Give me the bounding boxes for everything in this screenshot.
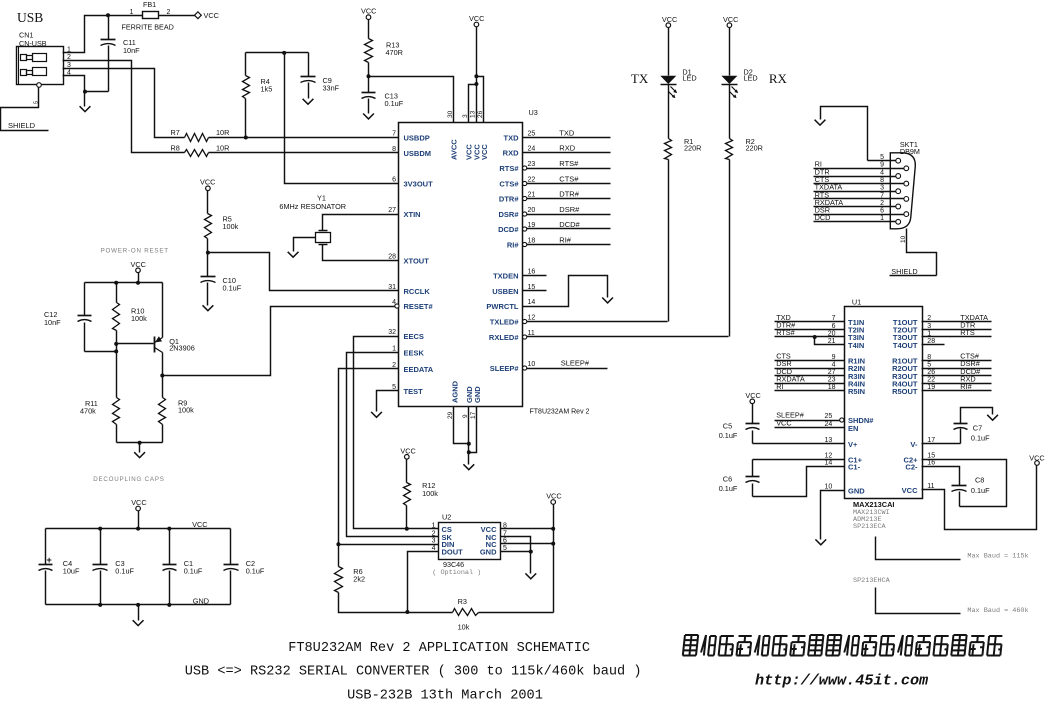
C1+ wire and C6 [753,459,845,461]
svg-text:+: + [47,555,52,565]
svg-text:EECS: EECS [404,332,424,341]
svg-text:LED: LED [744,74,758,83]
svg-text:1: 1 [130,9,134,16]
svg-text:GND: GND [848,487,865,496]
svg-text:V-: V- [910,440,918,449]
svg-text:93C46: 93C46 [443,560,464,569]
wire Q1 collector down [162,353,164,398]
svg-text:3: 3 [880,185,884,192]
svg-text:CTS#: CTS# [499,180,519,189]
svg-text:1: 1 [392,346,396,353]
svg-text:C2-: C2- [905,463,918,472]
svg-text:10nF: 10nF [44,318,61,327]
svg-text:3V3OUT: 3V3OUT [404,180,434,189]
svg-text:U3: U3 [529,108,538,117]
TXDEN USBEN stubs [523,275,547,277]
C1- wire loop [753,467,845,497]
svg-text:10uF: 10uF [63,567,80,576]
U1 right output wires [922,321,992,323]
junction R13/C13 [367,74,371,78]
svg-text:1: 1 [880,215,884,222]
svg-text:6: 6 [392,177,396,184]
svg-text:9: 9 [832,354,836,361]
svg-text:DCD#: DCD# [559,220,580,229]
svg-text:22: 22 [528,177,536,184]
junction C11/top-rail [106,13,110,17]
U2 chip body [439,523,501,560]
wire top rail to FB1 [142,15,144,17]
svg-text:1: 1 [432,522,436,529]
svg-text:33nF: 33nF [323,84,340,93]
decoupling ground arrow [138,605,140,621]
wire to pin 3 [469,85,477,123]
wire D1 to resistor [668,85,670,139]
svg-text:XTOUT: XTOUT [404,257,430,266]
svg-text:T4OUT: T4OUT [893,341,918,350]
capacitor C5 0.1uF [752,404,754,424]
svg-text:3: 3 [927,323,931,330]
resistor R7 10R [184,137,186,139]
svg-text:18: 18 [828,384,836,391]
svg-text:R5OUT: R5OUT [892,387,918,396]
svg-text:4: 4 [832,361,836,368]
svg-text:17: 17 [927,437,935,444]
T4IN jog from RTS# line [813,335,817,339]
svg-text:6: 6 [880,208,884,215]
max baud 460k bracket [876,588,961,614]
svg-text:9: 9 [880,162,884,169]
svg-text:27: 27 [828,369,836,376]
svg-text:C6: C6 [723,475,732,484]
svg-text:MAX213CAI: MAX213CAI [853,500,894,509]
RXLED# wire [527,336,729,338]
C2+ wire loop [922,460,1007,507]
svg-text:DTR#: DTR# [499,195,519,204]
capacitor C12 10nF [84,283,86,316]
wire to RCCLK pin 31 [208,253,399,291]
U1 GND pin 10 wire to ground [821,491,845,540]
V- wire and C7 [922,443,961,445]
svg-text:12: 12 [825,453,833,460]
svg-text:470k: 470k [80,407,96,416]
wire R1 to TXLED# [668,160,670,322]
svg-text:RESET#: RESET# [404,302,434,311]
svg-text:5: 5 [880,154,884,161]
svg-text:VCC: VCC [723,15,738,24]
svg-text:10R: 10R [216,144,229,153]
resistor R6 2k2 [335,567,343,593]
svg-text:VCC: VCC [480,144,489,160]
svg-text:7: 7 [392,131,396,138]
svg-text:FT8U232AM Rev 2 APPLICATION SC: FT8U232AM Rev 2 APPLICATION SCHEMATIC [288,641,590,656]
svg-text:RXD: RXD [503,149,519,158]
capacitor C4 10uF [45,529,47,565]
svg-text:11: 11 [927,483,934,490]
svg-text:3: 3 [432,538,436,545]
svg-text:16: 16 [927,460,935,467]
svg-text:http://www.45it.com: http://www.45it.com [755,672,928,690]
svg-text:USB <=> RS232 SERIAL CONVERTER: USB <=> RS232 SERIAL CONVERTER ( 300 to … [185,665,642,680]
svg-text:25: 25 [825,413,833,420]
resistor R8 10R [185,150,209,157]
wire VCC stem to pins [476,27,478,123]
svg-text:RXLED#: RXLED# [489,333,519,342]
svg-text:20: 20 [528,207,536,214]
svg-text:RI: RI [776,382,783,391]
svg-text:470R: 470R [386,48,403,57]
D2 emission arrows [732,87,738,93]
U3 chip body [399,123,523,407]
svg-text:USB-232B 13th March 2001: USB-232B 13th March 2001 [347,688,543,703]
wire R2 to RXLED# [729,160,731,337]
wire pin3 USBDP down [63,69,185,138]
svg-text:5: 5 [927,361,931,368]
svg-text:VCC: VCC [745,391,760,400]
svg-text:26: 26 [927,369,935,376]
svg-text:23: 23 [828,377,836,384]
resistor R4 1k5 [245,53,247,76]
wire base [117,343,154,345]
VCC terminal U2 [551,500,556,505]
resistor R11 470k [113,398,120,425]
svg-text:0.1uF: 0.1uF [246,567,265,576]
svg-text:8: 8 [392,146,396,153]
svg-text:21: 21 [528,192,536,199]
svg-text:TEST: TEST [404,387,424,396]
svg-text:0.1uF: 0.1uF [971,433,990,442]
svg-text:6: 6 [832,323,836,330]
wire XTIN [323,215,399,231]
PWRCTL wire to gnd arrow [523,276,608,307]
C2- wire and C8 [922,467,960,486]
svg-text:2: 2 [167,9,171,16]
svg-text:GND: GND [193,596,209,605]
wire pin2 USBDM down [63,61,185,153]
SLEEP# stub [527,368,608,370]
svg-text:20: 20 [828,330,836,337]
svg-text:T4IN: T4IN [848,341,864,350]
decoupling bottom rail GND [46,604,231,606]
EN VCC wire [775,427,845,429]
VCC terminal D1 [666,23,671,28]
svg-text:TXDEN: TXDEN [493,272,518,281]
svg-text:EESK: EESK [404,349,425,358]
svg-text:10R: 10R [216,128,229,137]
svg-text:R3: R3 [458,597,467,606]
svg-text:2: 2 [432,530,436,537]
svg-text:28: 28 [927,338,935,345]
svg-text:RTS: RTS [960,328,975,337]
svg-text:10: 10 [528,361,536,368]
VCC terminal POR [136,268,141,273]
svg-text:21: 21 [828,338,836,345]
wire to pin 26 [477,77,484,123]
svg-text:25: 25 [528,131,536,138]
svg-text:24: 24 [528,146,536,153]
svg-text:6MHz RESONATOR: 6MHz RESONATOR [279,202,346,211]
VCC terminal D2 [727,23,732,28]
svg-text:15: 15 [927,453,935,460]
svg-text:DSR#: DSR# [559,205,580,214]
svg-text:RTS#: RTS# [499,164,519,173]
svg-text:VCC: VCC [400,446,415,455]
svg-text:FERRITE BEAD: FERRITE BEAD [122,23,174,32]
svg-text:22: 22 [927,377,935,384]
svg-text:R5IN: R5IN [848,387,865,396]
capacitor C10 0.1uF [207,253,209,277]
DB9 pin sockets [896,158,901,163]
svg-text:RTS#: RTS# [776,328,795,337]
svg-text:13: 13 [825,437,833,444]
svg-text:12: 12 [528,315,536,322]
svg-text:14: 14 [825,460,833,467]
U3 right side stub wires TXD..RI# [523,137,611,139]
svg-text:V+: V+ [848,440,858,449]
svg-text:EEDATA: EEDATA [404,365,434,374]
resistor R9 100k [159,398,166,425]
svg-text:TXLED#: TXLED# [490,318,520,327]
svg-text:PWRCTL: PWRCTL [486,302,518,311]
svg-text:USBDP: USBDP [404,134,430,143]
wire shield to SHIELD label [1,88,49,131]
svg-text:2k2: 2k2 [353,575,365,584]
POR top rail [85,282,163,284]
svg-text:8: 8 [880,177,884,184]
transistor Q1 2N3906 [154,337,156,353]
usb connector CN1 body [17,47,64,85]
junction R4 bottom on USBDP line [244,136,248,140]
wire EECS [354,337,439,529]
svg-text:0.1uF: 0.1uF [184,567,203,576]
wire 3V3OUT net top [246,52,309,54]
DB9 shell [890,153,915,229]
svg-text:FT8U232AM Rev 2: FT8U232AM Rev 2 [530,409,590,416]
svg-text:0.1uF: 0.1uF [719,431,738,440]
svg-text:C5: C5 [723,422,732,431]
ground usb [84,92,86,107]
svg-text:VCC: VCC [546,491,561,500]
svg-text:220R: 220R [684,144,701,153]
capacitor C2 0.1uF [230,529,232,565]
svg-text:VCC: VCC [902,486,918,495]
wire EESK [347,353,439,537]
svg-text:0.1uF: 0.1uF [971,486,990,495]
svg-text:26: 26 [477,110,484,118]
svg-text:10: 10 [900,235,907,243]
svg-text:AVCC: AVCC [450,139,459,160]
svg-text:29: 29 [447,411,454,419]
wire 3V3OUT vertical [285,53,399,184]
svg-text:13: 13 [469,110,476,118]
DB9 pin wires and labels [868,160,896,162]
svg-text:TX: TX [631,71,649,86]
svg-text:24: 24 [825,421,833,428]
svg-text:VCC: VCC [776,418,791,427]
svg-text:USB: USB [17,10,43,25]
svg-text:3: 3 [462,114,469,118]
U2 NC pin7 wire [501,537,531,552]
decoupling top rail VCC [46,528,231,530]
svg-text:18: 18 [528,238,536,245]
svg-text:100k: 100k [223,222,239,231]
resistor R5 100k [207,191,209,214]
svg-text:VCC: VCC [1029,453,1044,462]
svg-text:SLEEP#: SLEEP# [490,364,520,373]
svg-text:VCC: VCC [131,498,146,507]
svg-text:VCC: VCC [361,7,376,16]
svg-text:TXD: TXD [504,134,520,143]
svg-text:VCC: VCC [200,178,215,187]
svg-text:R8: R8 [171,144,180,153]
svg-text:GND: GND [480,548,497,557]
shield pin circle [37,83,42,88]
svg-text:2: 2 [927,315,931,322]
svg-text:10: 10 [825,483,833,490]
svg-text:2: 2 [880,200,884,207]
svg-text:DCD#: DCD# [498,225,519,234]
svg-text:VCC: VCC [469,14,484,23]
wire C12 bottom to node [85,351,117,353]
svg-text:C1-: C1- [848,463,861,472]
svg-text:LED: LED [682,74,696,83]
svg-text:32: 32 [388,329,396,336]
svg-text:0.1uF: 0.1uF [719,484,738,493]
DB9 pin5 ground wire [821,107,868,161]
svg-text:R7: R7 [171,128,180,137]
svg-text:10k: 10k [458,622,470,631]
svg-text:0.1uF: 0.1uF [223,284,242,293]
svg-text:16: 16 [528,269,536,276]
SHDN# bubble and wire [840,418,844,422]
svg-text:8: 8 [927,354,931,361]
svg-text:SLEEP#: SLEEP# [561,359,590,368]
capacitor C1 0.1uF [169,529,171,565]
capacitor C3 0.1uF [100,529,102,565]
svg-text:Max Baud = 115k: Max Baud = 115k [967,553,1028,561]
svg-text:SP213ECA: SP213ECA [853,523,887,531]
LED D2 [729,28,731,76]
U2 NC pin6 wire [501,543,554,545]
capacitor C7 0.1uF [960,429,962,444]
svg-text:TXD: TXD [559,128,575,137]
svg-text:POWER-ON RESET: POWER-ON RESET [101,248,169,255]
wire resonator gnd lead [294,238,316,252]
svg-text:7: 7 [832,315,836,322]
svg-text:EN: EN [848,424,858,433]
svg-text:1k5: 1k5 [261,85,273,94]
svg-text:19: 19 [927,384,935,391]
resistor R13 470R [368,20,370,39]
svg-text:2N3906: 2N3906 [169,343,195,352]
resistor R2 220R [726,139,733,160]
usb plug contact lower [21,70,27,76]
svg-text:RI#: RI# [559,235,572,244]
svg-text:5: 5 [34,101,40,104]
capacitor C13 0.1uF [368,77,370,93]
U1 chip body [845,307,923,499]
RESET# bubble [395,304,399,308]
wire pin4 gnd junction [85,91,109,93]
VCC pin 11 wire to VCC terminal [922,466,1037,530]
svg-text:C7: C7 [973,424,982,433]
svg-text:SP213EHCA: SP213EHCA [853,577,891,585]
wire XTOUT [323,245,399,261]
VCC terminal C5 [750,399,755,404]
wire pin4 GND [63,76,85,92]
wire to AVCC pin 30 [369,77,454,123]
svg-text:DSR#: DSR# [498,210,519,219]
svg-text:SHIELD: SHIELD [8,121,36,130]
chinese watermark text [683,635,1003,656]
capacitor C9 33nF [308,53,310,77]
svg-text:100k: 100k [178,406,194,415]
DB9 shield pin 10 wire [907,229,937,276]
svg-text:100k: 100k [422,489,438,498]
svg-text:9: 9 [462,414,469,418]
capacitor C6 0.1uF [752,460,754,477]
svg-text:23: 23 [528,161,536,168]
junction R5/C10 [206,251,210,255]
VCC terminal U3 [474,22,479,27]
U2 GND pin5 wire to ground [501,551,531,553]
usb plug contact upper [21,55,27,61]
U1 left input wires [775,321,845,323]
resistor R3 10k [453,609,479,616]
resonator Y1 [319,230,328,232]
TXLED# wire [527,321,668,323]
svg-text:220R: 220R [746,144,763,153]
wire D2 to resistor [729,85,731,139]
svg-text:27: 27 [388,207,396,214]
max baud 115k bracket [876,537,961,560]
svg-text:RX: RX [769,71,788,86]
POR bottom rail + ground [117,442,163,444]
svg-text:VCC: VCC [662,15,677,24]
svg-text:DCD: DCD [815,213,831,222]
svg-text:XTIN: XTIN [404,210,421,219]
wire EEDATA to DIN [339,369,439,545]
svg-text:4: 4 [880,169,884,176]
svg-text:30: 30 [447,110,454,118]
svg-text:GND: GND [473,386,482,403]
VCC terminal R5 [206,186,211,191]
node R10/R11/C12/base junction [114,342,118,346]
svg-text:RTS#: RTS# [559,159,579,168]
svg-text:100k: 100k [131,314,147,323]
svg-text:USBDM: USBDM [404,149,432,158]
svg-text:7: 7 [880,192,884,199]
svg-text:VCC: VCC [192,520,207,529]
svg-text:RI#: RI# [507,241,520,250]
capacitor C11 [108,16,110,40]
resistor R10 100k [116,283,118,303]
svg-text:28: 28 [388,254,396,261]
svg-text:10nF: 10nF [123,46,140,55]
wire reset net to RESET# pin [163,307,397,376]
svg-text:U2: U2 [442,513,451,522]
svg-text:AGND: AGND [451,380,460,403]
D1 emission arrows [671,87,677,93]
svg-text:0.1uF: 0.1uF [115,567,134,576]
svg-text:SHIELD: SHIELD [891,267,917,276]
svg-text:0.1uF: 0.1uF [385,99,404,108]
resistor R12 100k [405,455,410,460]
svg-text:RXD: RXD [559,143,575,152]
svg-text:14: 14 [528,299,536,306]
wire pin1 VBUS to top rail [63,16,143,53]
svg-text:DTR#: DTR# [559,189,579,198]
svg-text:1: 1 [927,330,931,337]
